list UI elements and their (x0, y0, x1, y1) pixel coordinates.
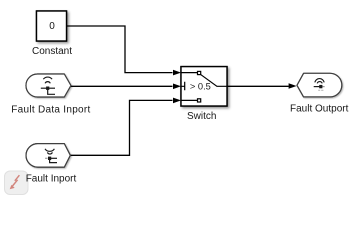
wire from Fault Inport to Switch bottom input (70, 100, 173, 155)
outport block Fault Outport (297, 73, 342, 97)
arrowhead into Switch input 3 (173, 98, 181, 104)
svg-text:> 0.5: > 0.5 (190, 81, 211, 91)
arrowhead into Fault Outport (289, 83, 297, 89)
switch port 3 stub and contact (181, 99, 201, 102)
switch block Switch (181, 67, 227, 106)
svg-text:Switch: Switch (187, 111, 216, 122)
switch lever (201, 75, 227, 87)
svg-text:0: 0 (49, 21, 55, 32)
icon fault-out (arcs up over line with dot) (314, 79, 325, 91)
icon fault (arcs down over step) (45, 149, 57, 163)
arrowhead into Switch input 1 (173, 70, 181, 76)
switch criteria tick (181, 82, 185, 91)
inport block Fault Inport (26, 144, 70, 168)
switch port 1 stub and contact (181, 71, 201, 74)
inport block Fault Data Inport (26, 74, 71, 97)
fault badge (red lightning) (5, 171, 29, 195)
svg-text:Fault Data Inport: Fault Data Inport (11, 104, 90, 115)
svg-text:Fault Inport: Fault Inport (26, 173, 77, 184)
wire from Constant to Switch top input (67, 26, 173, 73)
svg-text:Constant: Constant (32, 46, 72, 57)
wire from Fault Data Inport to Switch middle input (71, 85, 173, 87)
constant block C1 (37, 11, 67, 41)
icon fault-data (arcs up over step) (41, 77, 55, 94)
arrowhead into Switch input 2 (173, 84, 181, 90)
wire from Switch output to Fault Outport (227, 85, 289, 87)
svg-text:Fault Outport: Fault Outport (290, 104, 349, 115)
